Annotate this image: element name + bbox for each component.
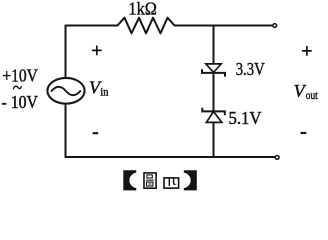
svg-text:1kΩ: 1kΩ [128, 0, 157, 19]
svg-text:5.1V: 5.1V [229, 108, 262, 128]
svg-text:V: V [294, 81, 307, 101]
svg-text:+10V: +10V [2, 66, 38, 86]
svg-text:3.3V: 3.3V [236, 59, 265, 79]
svg-text:out: out [306, 90, 319, 102]
svg-text:in: in [100, 87, 108, 99]
svg-text:- 10V: - 10V [2, 92, 39, 112]
